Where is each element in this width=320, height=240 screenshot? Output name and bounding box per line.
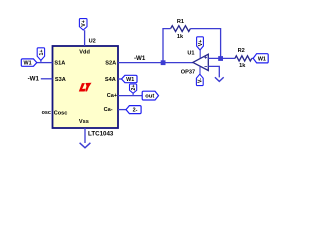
- op-amp U1: [193, 54, 209, 70]
- flag V+ supply at Vdd: [79, 19, 87, 30]
- wire op-amp output to R2: [208, 57, 235, 59]
- port tag out: [142, 91, 158, 100]
- wire Ca+ to out tag: [118, 95, 142, 97]
- svg-text:-W1: -W1: [28, 76, 40, 83]
- wire -W1 to S3A: [41, 78, 53, 80]
- svg-text:V+: V+: [81, 20, 87, 27]
- IC body U2 LTC1043: [53, 46, 119, 128]
- svg-text:1k: 1k: [177, 34, 184, 40]
- svg-text:Vdd: Vdd: [79, 49, 90, 55]
- wire W1 to S1A: [37, 62, 53, 64]
- svg-text:S3A: S3A: [55, 77, 66, 83]
- svg-text:S1A: S1A: [54, 60, 65, 66]
- wire junction up to R1 left: [163, 29, 171, 63]
- flag V+ supply above op-amp: [197, 37, 204, 58]
- svg-text:R1: R1: [177, 19, 184, 25]
- svg-text:osc: osc: [42, 110, 51, 116]
- wire op-amp plus input to ground: [208, 66, 219, 77]
- svg-text:2+: 2+: [131, 85, 137, 91]
- wire S2A to op-amp node -W1: [118, 62, 193, 64]
- svg-text:R2: R2: [238, 48, 245, 54]
- svg-text:S2A: S2A: [105, 60, 116, 66]
- svg-text:S4A: S4A: [105, 77, 116, 83]
- resistor R2: [235, 56, 252, 61]
- resistor R1: [171, 26, 191, 32]
- wire R1 right down to output node: [190, 29, 220, 59]
- svg-text:Ca-: Ca-: [104, 107, 113, 113]
- wire R2 to W1 tag: [252, 57, 254, 59]
- svg-text:Ca+: Ca+: [107, 93, 118, 99]
- flag 1+ scope input on S1A wire: [37, 48, 45, 63]
- port tag W1 at S4A: [122, 75, 138, 83]
- svg-text:Vss: Vss: [79, 119, 89, 125]
- port tag 2- scope input: [126, 106, 141, 114]
- svg-text:OP37: OP37: [181, 70, 195, 76]
- svg-text:V+: V+: [198, 40, 204, 47]
- svg-text:-W1: -W1: [134, 55, 146, 62]
- svg-text:2-: 2-: [133, 108, 138, 114]
- port tag W1 left: [21, 59, 37, 67]
- svg-text:W1: W1: [258, 56, 266, 62]
- svg-text:U2: U2: [89, 39, 96, 45]
- flag V- supply below op-amp: [196, 67, 203, 86]
- wire S4A to W1 tag: [118, 78, 122, 80]
- ground chip: [80, 143, 91, 148]
- svg-text:1+: 1+: [39, 50, 45, 56]
- port tag W1 right: [253, 54, 268, 63]
- wire Vss stem to ground: [84, 128, 86, 143]
- svg-text:W1: W1: [126, 77, 134, 83]
- junction output node: [218, 56, 223, 61]
- svg-text:LTC1043: LTC1043: [88, 131, 114, 138]
- svg-text:U1: U1: [187, 51, 194, 57]
- wire Ca- to 2- tag: [118, 109, 126, 111]
- ground op-amp: [215, 77, 224, 81]
- svg-text:W1: W1: [24, 61, 32, 67]
- flag 2+ scope input on Ca+ wire: [130, 84, 138, 96]
- junction node -W1: [161, 60, 166, 65]
- LT logo: [79, 83, 92, 92]
- svg-text:V-: V-: [198, 78, 204, 83]
- svg-text:Cosc: Cosc: [54, 110, 68, 116]
- svg-text:1k: 1k: [239, 63, 246, 69]
- svg-text:out: out: [145, 94, 154, 100]
- wire Vdd stem: [84, 30, 86, 46]
